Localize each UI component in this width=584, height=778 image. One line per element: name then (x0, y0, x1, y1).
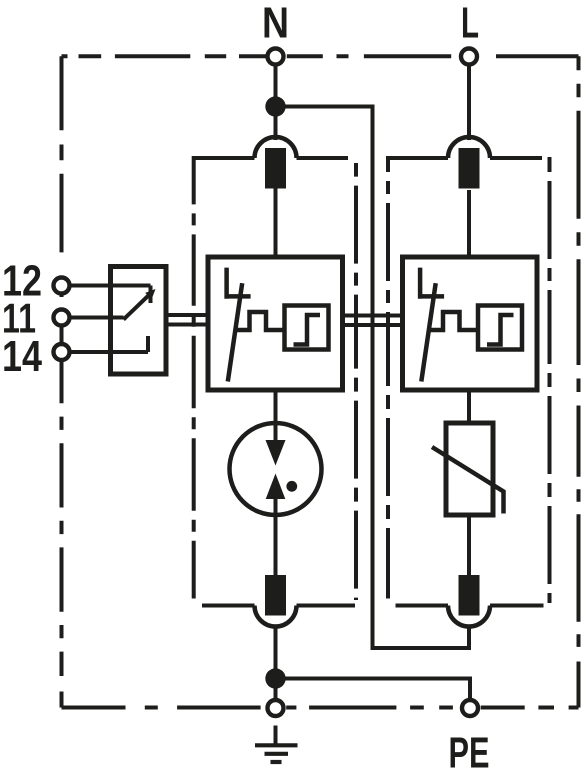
changeover switch blade (124, 294, 151, 320)
wire L terminal to top contact (467, 66, 471, 140)
disconnector U1 box (208, 257, 343, 390)
terminal L (461, 49, 477, 65)
disconnector U2 thermal trip squiggle (430, 312, 478, 330)
wire varistor to bottom contact (467, 515, 471, 575)
disconnector U1 indicator box (285, 306, 329, 350)
wire junction B to PE terminal (276, 679, 471, 699)
module 2 boundary (dash-dot box, L-N path) (388, 156, 550, 606)
terminal N (268, 49, 284, 65)
varistor R1 body (446, 423, 493, 515)
remote signalling contact box (111, 267, 167, 375)
disconnector U1 thermal trip squiggle (236, 312, 284, 330)
terminal 12 (54, 278, 70, 294)
wire U2 to varistor (467, 390, 471, 423)
plug-in contact bottom N (255, 575, 297, 627)
plug-in contact top N (255, 137, 297, 189)
disconnector U2 fixed contact (420, 268, 444, 299)
mechanical linkage U1 to U2 (343, 316, 403, 326)
disconnector U1 switch blade (228, 283, 242, 381)
disconnector U2 indicator box (478, 306, 522, 350)
svg-text:L: L (461, 0, 479, 48)
wire contact to disconnector U2 (467, 190, 471, 257)
junction B (265, 668, 285, 688)
junction A (265, 96, 285, 116)
spark gap top electrode triangle (266, 440, 286, 466)
terminal PE (462, 700, 478, 716)
disconnector U2 step symbol (487, 315, 514, 345)
spark gap trigger dot (286, 481, 297, 492)
terminal earth (268, 700, 284, 716)
spark gap F1 circle (230, 423, 322, 515)
module 1 boundary (dash-dot box, N-PE path) (194, 156, 356, 606)
varistor R1 diagonal stroke (432, 447, 504, 514)
disconnector U2 box (403, 257, 538, 390)
enclosure dashed border (62, 56, 579, 707)
wire terminal 12 (71, 286, 151, 304)
wire contact to disconnector U1 (274, 189, 278, 258)
terminal 14 (54, 344, 70, 360)
wire spark gap to bottom contact (274, 497, 278, 575)
svg-text:PE: PE (449, 729, 490, 778)
wire terminal 11 (71, 316, 124, 320)
changeover switch arrowhead (145, 289, 155, 299)
disconnector U1 step symbol (294, 315, 321, 345)
svg-text:N: N (262, 0, 289, 48)
wire N terminal to junction to top contact (274, 66, 278, 140)
wire junction A to varistor bottom (N bus) (276, 107, 470, 649)
ground symbol (255, 726, 298, 763)
plug-in contact bottom L (448, 575, 490, 627)
wire terminal 14 (71, 336, 148, 352)
svg-text:14: 14 (2, 332, 42, 381)
mechanical linkage switchbox to U1 (166, 315, 208, 325)
spark gap bottom electrode triangle (266, 474, 286, 500)
disconnector U2 switch blade (421, 283, 435, 381)
plug-in contact top L (448, 137, 490, 189)
wire U1 to spark gap (274, 390, 278, 441)
terminal 11 (54, 310, 70, 326)
wire bottom contact N to junction B (274, 627, 278, 699)
disconnector U1 fixed contact (227, 268, 251, 299)
